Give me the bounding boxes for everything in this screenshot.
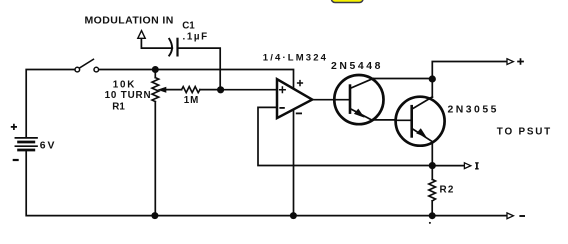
svg-text:6V: 6V [40,141,57,152]
svg-text:10 TURN: 10 TURN [105,90,152,101]
svg-text:R2: R2 [440,185,455,196]
svg-text:10K: 10K [113,80,136,91]
svg-text:R1: R1 [112,102,125,113]
svg-text:.1µF: .1µF [183,31,209,42]
svg-text:C1: C1 [182,21,195,32]
svg-text:1/4·LM324: 1/4·LM324 [263,53,328,64]
svg-text:TO PSUT: TO PSUT [497,127,552,138]
svg-text:2N3055: 2N3055 [448,105,499,116]
svg-text:1M: 1M [184,95,199,106]
svg-text:2N5448: 2N5448 [331,61,383,72]
svg-text:MODULATION IN: MODULATION IN [85,15,174,27]
